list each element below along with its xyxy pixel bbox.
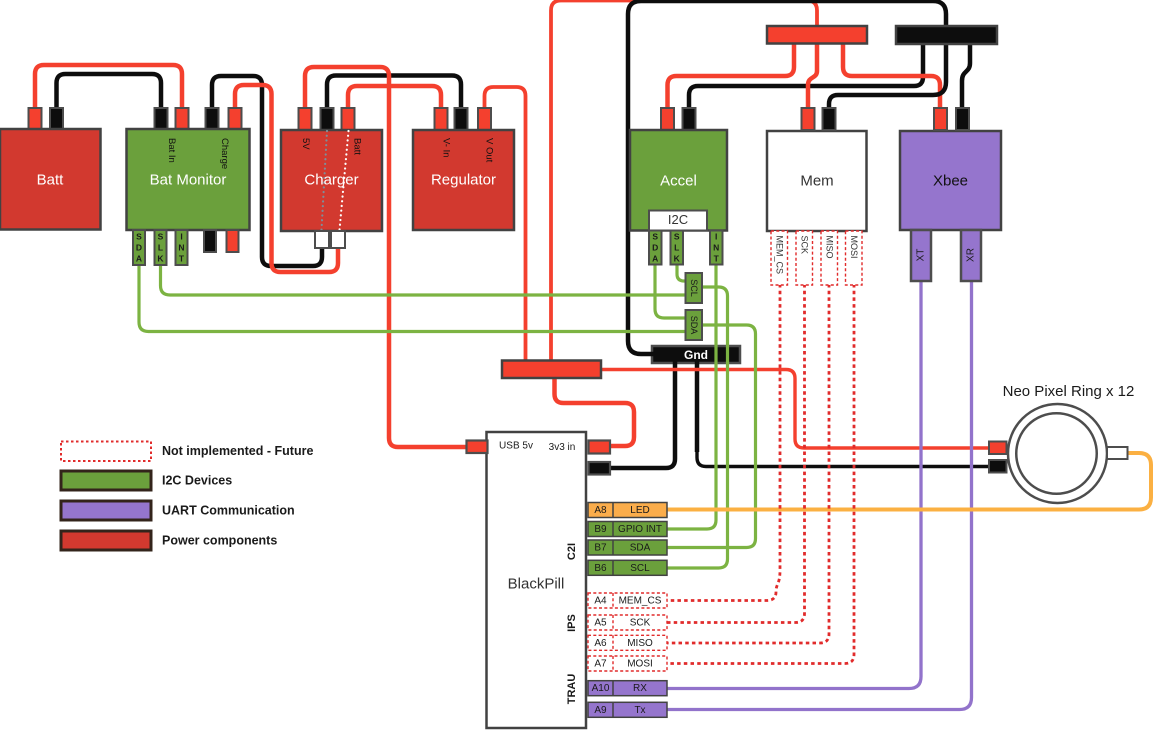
svg-text:A8: A8 xyxy=(594,505,607,516)
svg-text:TRAU: TRAU xyxy=(566,674,578,705)
module Xbee xyxy=(900,131,1001,230)
module Charger xyxy=(281,130,382,231)
mem MEM_CS pin (dashed future) xyxy=(771,231,788,285)
pin row B7 SDA xyxy=(588,540,667,555)
wire red rail right drop to xbee red pin xyxy=(843,42,940,112)
xbee red pin xyxy=(934,108,947,130)
svg-text:3v3 in: 3v3 in xyxy=(549,442,576,453)
blackpill 3v3 red pin xyxy=(589,441,611,454)
pin row B9 GPIO INT xyxy=(588,522,667,537)
SCL junction box xyxy=(686,273,703,303)
svg-text:Xbee: Xbee xyxy=(933,173,968,190)
wire xbee TX to blackpill A10 RX xyxy=(665,279,921,689)
svg-text:RX: RX xyxy=(633,683,647,694)
pin row B6 SCL xyxy=(588,560,667,575)
wire blackpill gnd pin to Gnd bar xyxy=(607,361,675,468)
svg-text:Bat Monitor: Bat Monitor xyxy=(150,172,227,189)
xbee black pin xyxy=(956,108,969,130)
power rail red (top) xyxy=(767,26,867,44)
svg-text:I2C Devices: I2C Devices xyxy=(162,474,232,488)
svg-text:Charge: Charge xyxy=(219,138,230,169)
bat monitor red stub pin xyxy=(227,230,239,252)
svg-text:C2I: C2I xyxy=(566,543,578,560)
svg-text:GPIO INT: GPIO INT xyxy=(618,524,662,535)
svg-text:Accel: Accel xyxy=(660,173,697,190)
svg-text:A9: A9 xyxy=(594,705,607,716)
wire red rail center drop to mem red pin xyxy=(808,42,817,112)
svg-text:Mem: Mem xyxy=(800,173,833,190)
neopixel ring outer xyxy=(1008,404,1107,503)
wire black rail right drop to xbee black pin xyxy=(962,43,970,112)
charger 5V red pin xyxy=(299,108,312,130)
regulator V-In red pin xyxy=(435,108,448,130)
bat monitor SDA pin xyxy=(133,230,145,265)
pin row A7 MOSI (dashed) xyxy=(588,656,667,671)
bat monitor SLK pin xyxy=(155,230,167,265)
wire bat-monitor SLK to SCL junction xyxy=(161,264,688,295)
microcontroller BlackPill xyxy=(487,432,587,728)
wire bat-monitor Charge red to charger bottom pin2 xyxy=(235,85,338,272)
neopixel black pin xyxy=(989,460,1007,473)
svg-text:USB 5v: USB 5v xyxy=(499,441,533,452)
neopixel red pin xyxy=(989,442,1007,455)
bat monitor BatIn red pin xyxy=(176,108,189,130)
bat monitor Charge red pin xyxy=(229,108,242,130)
svg-text:LED: LED xyxy=(630,505,649,516)
svg-text:Batt: Batt xyxy=(352,138,363,155)
mem MOSI pin (dashed future) xyxy=(846,231,863,285)
red distribution bar (middle) xyxy=(502,361,601,379)
wire accel INT pin to blackpill B9 GPIO INT xyxy=(665,264,716,529)
svg-text:MOSI: MOSI xyxy=(849,236,859,259)
svg-text:SDA: SDA xyxy=(630,543,651,554)
mem black pin xyxy=(823,108,836,130)
svg-text:V Out: V Out xyxy=(484,138,495,163)
svg-text:Power components: Power components xyxy=(162,534,277,548)
svg-text:BlackPill: BlackPill xyxy=(508,576,565,593)
wire accel SLK pin to SCL junction xyxy=(677,264,687,281)
wire accel SDA pin to SDA junction xyxy=(655,264,687,318)
svg-text:I2C: I2C xyxy=(668,212,688,227)
bat monitor BatIn black pin xyxy=(155,108,168,130)
wire bat-monitor SDA to SDA junction xyxy=(139,264,687,332)
wire red mid bar to blackpill 3v3 pin xyxy=(555,376,635,446)
accel red pin xyxy=(661,108,674,130)
power rail black (top) xyxy=(896,26,997,44)
svg-text:SCK: SCK xyxy=(630,618,651,629)
svg-text:MEM_CS: MEM_CS xyxy=(775,236,785,275)
charger Batt red pin xyxy=(342,108,355,130)
svg-text:MISO: MISO xyxy=(627,638,653,649)
svg-text:B9: B9 xyxy=(594,524,607,535)
wire Gnd bar to neopixel black pin xyxy=(697,361,991,467)
svg-text:Tx: Tx xyxy=(634,705,645,716)
wire charger Batt to regulator V-In xyxy=(348,86,441,112)
wire regulator VOut to red mid bar xyxy=(485,87,526,362)
svg-text:XT: XT xyxy=(916,249,927,262)
pin row A6 MISO (dashed) xyxy=(588,635,667,650)
module Mem xyxy=(767,131,867,231)
module Bat Monitor xyxy=(127,129,250,230)
SDA junction box xyxy=(686,310,703,340)
wire SCL junction to blackpill B6 SCL xyxy=(665,287,728,568)
svg-text:A6: A6 xyxy=(594,638,607,649)
svg-text:XR: XR xyxy=(966,248,977,262)
blackpill USB 5v red pin xyxy=(467,441,488,454)
wire Gnd bar drop (thick segment) xyxy=(695,361,700,452)
module Accel xyxy=(630,130,727,231)
wire blackpill A8 LED to neopixel data pin xyxy=(665,453,1151,510)
wire xbee RX to blackpill A9 Tx xyxy=(665,279,972,710)
battery Batt xyxy=(0,129,101,230)
svg-text:SDA: SDA xyxy=(136,232,142,264)
module Regulator xyxy=(413,130,514,230)
regulator VOut red pin xyxy=(478,108,491,130)
svg-text:A4: A4 xyxy=(594,596,607,607)
wire charger black to regulator black xyxy=(327,76,461,113)
mem MISO pin (dashed future) xyxy=(821,231,838,285)
svg-text:Gnd: Gnd xyxy=(684,348,708,362)
xbee TX pin xyxy=(911,230,931,281)
wire charger 5V to blackpill USB 5v pin xyxy=(305,67,469,447)
pin row A9 Tx xyxy=(588,702,667,717)
bat monitor Charge black pin xyxy=(206,108,219,130)
accel I2C label box xyxy=(649,211,707,231)
legend: UART communication (purple) xyxy=(61,501,151,520)
svg-text:B7: B7 xyxy=(594,543,607,554)
accel black pin xyxy=(683,108,696,130)
wire battery red to bat-monitor BatIn red xyxy=(35,65,182,112)
svg-text:SDA: SDA xyxy=(689,316,699,335)
wire mem MOSI to blackpill A7 (dashed) xyxy=(666,284,854,664)
legend: I2C devices (green) xyxy=(61,471,151,490)
mem SCK pin (dashed future) xyxy=(796,231,813,285)
svg-text:Batt: Batt xyxy=(37,172,65,189)
wire red mid bar up over top to red rail xyxy=(551,1,817,363)
wire Gnd bar up over top to mem black pin through black rail xyxy=(628,1,946,354)
blackpill gnd black pin xyxy=(589,462,611,475)
accel SLK pin xyxy=(671,231,684,265)
svg-text:IPS: IPS xyxy=(566,614,578,632)
svg-text:MOSI: MOSI xyxy=(627,659,653,670)
svg-text:Bat In: Bat In xyxy=(166,138,177,163)
pin row A10 RX xyxy=(588,681,667,696)
svg-text:MEM_CS: MEM_CS xyxy=(619,596,662,607)
pin row A4 MEM_CS (dashed) xyxy=(588,593,667,608)
mem red pin xyxy=(802,108,815,130)
wire battery black to bat-monitor BatIn black xyxy=(57,74,162,112)
accel INT pin xyxy=(710,231,723,265)
wire mem SCK to blackpill A5 (dashed) xyxy=(666,284,805,623)
svg-text:A5: A5 xyxy=(594,618,607,629)
svg-text:MISO: MISO xyxy=(825,236,835,259)
svg-text:SCL: SCL xyxy=(689,279,699,297)
bat monitor INT pin xyxy=(176,230,188,265)
regulator black pin xyxy=(455,108,468,130)
Gnd bar xyxy=(652,346,740,363)
charger black pin xyxy=(321,108,334,130)
charger internal dotted trace white xyxy=(340,131,349,230)
xbee RX pin xyxy=(961,230,981,281)
bat monitor black stub pin xyxy=(204,230,216,252)
wire mem MISO to blackpill A6 (dashed) xyxy=(666,284,829,643)
svg-text:A7: A7 xyxy=(594,659,607,670)
svg-text:SCK: SCK xyxy=(800,236,810,255)
accel SDA pin xyxy=(649,231,662,265)
charger bottom white pin 2 xyxy=(331,231,345,248)
svg-text:SCL: SCL xyxy=(630,563,650,574)
svg-text:Regulator: Regulator xyxy=(431,172,496,189)
charger bottom white pin 1 xyxy=(315,231,329,248)
neopixel data white pin xyxy=(1107,447,1128,459)
wire red mid bar to neopixel red pin xyxy=(599,370,991,449)
svg-text:5V: 5V xyxy=(300,138,311,150)
wire red rail left drop to accel red pin xyxy=(668,42,795,112)
wire mem MEM_CS to blackpill A4 (dashed, not implemented) xyxy=(666,284,780,601)
pin row A8 LED xyxy=(588,503,667,518)
svg-text:A10: A10 xyxy=(592,683,610,694)
wire black rail left drop to accel black pin xyxy=(689,43,923,112)
svg-text:V- In: V- In xyxy=(441,138,452,158)
neopixel ring inner xyxy=(1016,413,1097,494)
wire SDA junction to blackpill B7 SDA xyxy=(665,325,756,548)
svg-text:B6: B6 xyxy=(594,563,607,574)
battery Batt black pin xyxy=(50,108,63,130)
svg-text:Neo Pixel Ring x 12: Neo Pixel Ring x 12 xyxy=(1003,383,1135,400)
svg-text:Charger: Charger xyxy=(304,172,358,189)
pin row A5 SCK (dashed) xyxy=(588,615,667,630)
wire bat-monitor Charge black to charger bottom pin1 xyxy=(212,76,322,266)
svg-text:Not implemented - Future: Not implemented - Future xyxy=(162,444,313,458)
legend: not implemented (dashed) xyxy=(61,442,151,462)
legend: power components (red) xyxy=(61,531,151,550)
charger internal dotted trace gray xyxy=(322,131,328,230)
svg-text:UART Communication: UART Communication xyxy=(162,504,295,518)
battery Batt red pin xyxy=(29,108,42,130)
svg-text:SDA: SDA xyxy=(652,232,658,264)
